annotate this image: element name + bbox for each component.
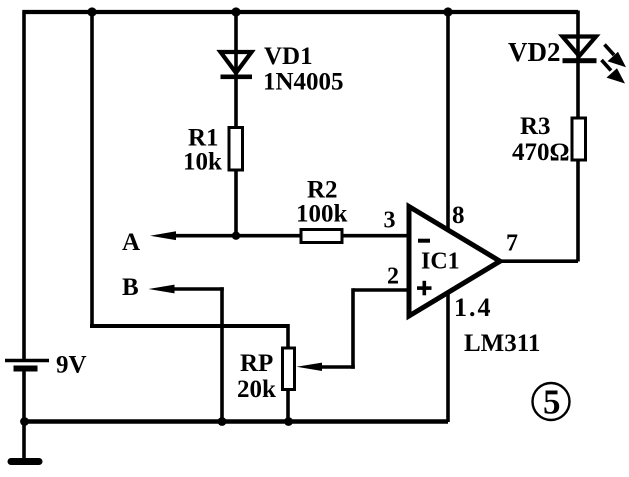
terminal B arrow: [149, 285, 175, 294]
wire R2 to pin 3: [343, 234, 411, 238]
diode VD1: [221, 52, 253, 79]
wire VD1 branch top: [234, 11, 238, 128]
RP wiper arrow: [297, 363, 323, 371]
node top rail junction x236: [231, 7, 240, 16]
svg-text:7: 7: [506, 231, 518, 257]
wire pin 8: [446, 11, 450, 231]
svg-text:R1: R1: [188, 125, 219, 152]
wire wiper vertical to pin2: [351, 288, 355, 369]
node RP-bottom-rail junction: [284, 417, 293, 426]
node top rail junction x92: [87, 7, 96, 16]
wire pin 7 output: [498, 259, 578, 263]
node B-bottom-rail junction: [218, 417, 227, 426]
wire left rail lower: [22, 372, 26, 460]
wire top rail: [23, 10, 579, 14]
node A junction: [232, 232, 240, 240]
svg-text:B: B: [122, 274, 139, 301]
terminal A arrow: [150, 231, 176, 240]
wire R3 to LED: [576, 11, 580, 118]
svg-text:VD1: VD1: [264, 43, 313, 70]
wire left rail upper: [22, 10, 26, 360]
svg-text:3: 3: [384, 208, 396, 234]
LED light arrow upper: [605, 45, 627, 68]
svg-text:100k: 100k: [296, 201, 348, 228]
wire RP feed vertical: [286, 324, 290, 348]
resistor R2: [301, 230, 342, 243]
svg-text:1.4: 1.4: [454, 293, 493, 322]
resistor R3: [572, 118, 586, 160]
wire R1 to node A: [234, 170, 238, 238]
LED VD2: [563, 37, 597, 64]
wire RP feed horizontal: [90, 324, 288, 328]
LED light arrow lower: [602, 60, 626, 84]
node battery-bottom-rail junction: [20, 417, 29, 426]
svg-text:R3: R3: [520, 113, 551, 140]
node top rail junction x448: [443, 7, 452, 16]
ground: [8, 458, 43, 465]
svg-text:9V: 9V: [56, 352, 87, 379]
svg-text:RP: RP: [240, 350, 273, 377]
wire RP bottom: [286, 390, 290, 421]
label plus input: [417, 281, 432, 296]
potentiometer RP: [283, 348, 295, 390]
svg-text:470Ω: 470Ω: [512, 139, 570, 166]
figure number 5: [533, 383, 570, 422]
svg-text:8: 8: [452, 202, 465, 229]
wire second rail: [90, 11, 94, 326]
wire bottom rail: [24, 419, 448, 424]
resistor R1: [229, 128, 243, 171]
wire pin 2: [353, 288, 411, 292]
svg-text:LM311: LM311: [464, 330, 540, 357]
svg-text:A: A: [122, 229, 140, 256]
op-amp IC1: [409, 207, 500, 317]
wire pins 1.4 down: [446, 291, 450, 422]
wire right branch lower: [576, 160, 580, 262]
svg-text:R2: R2: [307, 177, 338, 204]
svg-text:IC1: IC1: [421, 249, 460, 275]
wire wiper horizontal: [312, 365, 355, 369]
battery BT 9V: [5, 361, 49, 372]
svg-text:VD2: VD2: [508, 37, 561, 67]
wire B horizontal: [164, 287, 224, 291]
wire A to R2: [166, 234, 301, 238]
svg-text:2: 2: [387, 264, 399, 290]
svg-text:20k: 20k: [237, 376, 276, 403]
label minus input: [418, 239, 430, 243]
svg-text:5: 5: [543, 383, 561, 422]
svg-text:10k: 10k: [183, 149, 222, 176]
svg-text:1N4005: 1N4005: [263, 69, 344, 96]
wire B vertical: [220, 287, 224, 421]
